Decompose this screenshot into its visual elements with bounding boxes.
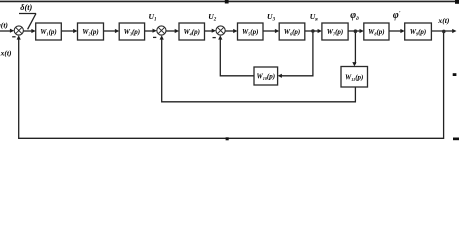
svg-text:U3: U3: [267, 12, 275, 23]
svg-text:Uя: Uя: [310, 12, 318, 23]
svg-text:W4(p): W4(p): [183, 28, 200, 37]
svg-text:W3(p): W3(p): [124, 28, 141, 37]
svg-text:W5(p): W5(p): [242, 28, 259, 37]
svg-text:δ(t): δ(t): [20, 3, 32, 12]
svg-text:φд: φд: [350, 10, 359, 22]
svg-text:U1: U1: [149, 12, 157, 23]
svg-text:W7(p): W7(p): [327, 28, 344, 37]
svg-text:W8(p): W8(p): [368, 28, 385, 37]
svg-text:φ': φ': [393, 10, 401, 21]
svg-text:W6(p): W6(p): [284, 28, 301, 37]
svg-text:g(t): g(t): [0, 20, 8, 29]
svg-text:x(t): x(t): [437, 16, 449, 25]
svg-text:W2(p): W2(p): [82, 28, 99, 37]
svg-text:x(t): x(t): [0, 49, 12, 58]
svg-text:U2: U2: [208, 12, 216, 23]
svg-text:W1(p): W1(p): [40, 28, 57, 37]
svg-text:W9(p): W9(p): [410, 28, 427, 37]
